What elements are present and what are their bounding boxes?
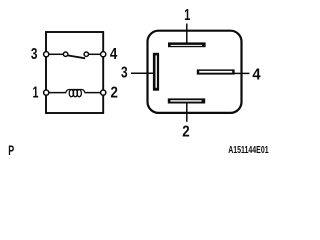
- svg-text:3: 3: [121, 64, 128, 81]
- relay body box: [46, 32, 103, 113]
- terminal 4 pin circle: [101, 52, 106, 57]
- switch blade (normally-open): [68, 55, 86, 58]
- svg-text:2: 2: [182, 124, 189, 141]
- wire bottom row left (terminal 1 to coil): [48, 92, 67, 94]
- relay coil L: [66, 90, 85, 97]
- svg-text:A151144E01: A151144E01: [228, 145, 269, 156]
- terminal 1 pin circle: [44, 90, 49, 95]
- lead line to terminal 4: [234, 72, 250, 74]
- svg-text:4: 4: [110, 46, 118, 63]
- terminal 4 slot: [197, 69, 235, 74]
- wire bottom row right (coil to terminal 2): [85, 92, 102, 94]
- svg-text:P: P: [8, 143, 14, 158]
- svg-text:2: 2: [111, 84, 118, 101]
- terminal 2 slot: [168, 98, 205, 103]
- switch contact left: [63, 52, 67, 56]
- switch contact right: [84, 52, 88, 56]
- connector body outline: [148, 31, 242, 113]
- wire top row right (switch contact to terminal 4): [88, 53, 101, 55]
- wire top row left (terminal 3 to switch contact): [48, 53, 64, 55]
- lead line to terminal 3: [131, 72, 154, 74]
- svg-text:3: 3: [31, 46, 38, 63]
- terminal 3 slot: [153, 53, 159, 91]
- lead line to terminal 1: [186, 24, 188, 44]
- terminal 1 slot: [168, 42, 206, 47]
- svg-text:4: 4: [252, 66, 261, 83]
- terminal 2 pin circle: [101, 90, 106, 95]
- terminal 3 pin circle: [44, 52, 49, 57]
- lead line to terminal 2: [186, 103, 188, 122]
- svg-text:1: 1: [33, 85, 39, 102]
- svg-text:1: 1: [184, 7, 190, 24]
